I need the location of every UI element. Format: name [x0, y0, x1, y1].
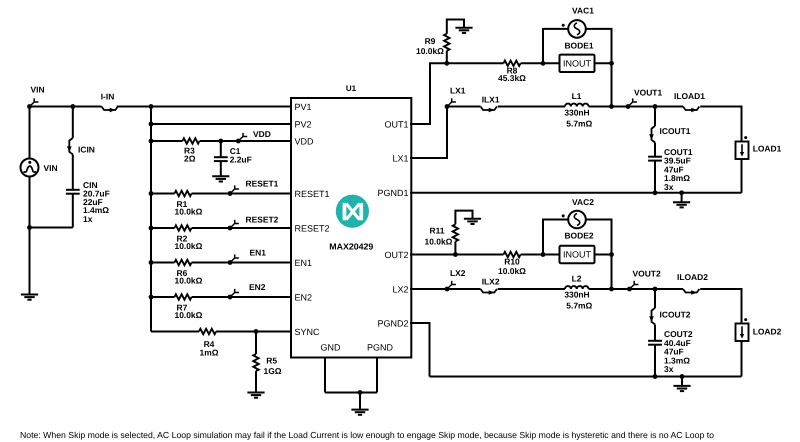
resistor R3	[183, 138, 200, 163]
capacitor C1	[214, 146, 252, 165]
node R9 tap	[444, 61, 449, 66]
node COUT2 rail junction	[653, 374, 658, 379]
svg-text:PV2: PV2	[295, 119, 312, 129]
node GND join junction	[358, 390, 363, 395]
wire R6 to EN1 pin	[192, 262, 292, 264]
ground below VIN	[21, 295, 38, 300]
current probe ICOUT2	[649, 308, 691, 324]
node CIN tap on input wire	[70, 104, 75, 109]
probe EN1	[228, 247, 267, 265]
wire VAC1 tap to BODE1	[543, 62, 560, 64]
probe VDD	[236, 129, 271, 143]
wire R5 to ground	[255, 371, 257, 392]
node R11 tap	[453, 252, 458, 257]
svg-text:R11: R11	[429, 225, 444, 235]
wire ICIN to CIN	[72, 155, 74, 190]
svg-text:1GΩ: 1GΩ	[264, 366, 282, 376]
probe VOUT2	[627, 268, 661, 291]
node COUT1 rail junction	[653, 190, 658, 195]
svg-text:SYNC: SYNC	[295, 327, 321, 337]
probe LX2	[445, 268, 466, 292]
Maxim logo	[336, 195, 369, 228]
wire RESET1 row left segment	[151, 193, 175, 195]
svg-text:RESET1: RESET1	[246, 178, 279, 188]
svg-text:3x: 3x	[664, 182, 674, 192]
wire R9 top to ground arm	[447, 20, 464, 34]
svg-text:10.0kΩ: 10.0kΩ	[175, 310, 203, 320]
wire VAC1 left branch	[543, 29, 568, 63]
svg-text:I-IN: I-IN	[101, 91, 115, 101]
svg-text:ILX1: ILX1	[482, 95, 500, 105]
ground below C1	[212, 176, 229, 181]
wire right junction down to VOUT1	[611, 63, 613, 106]
node bottom-left junction	[27, 225, 32, 230]
node VOUT2	[609, 287, 614, 292]
wire L1 to VOUT1 node	[589, 106, 612, 108]
wire EN1 row left segment	[151, 262, 175, 264]
wire PV2 row	[151, 123, 292, 125]
wire PGND1 rail	[410, 192, 742, 194]
probe LX1	[445, 86, 466, 109]
wire ILOAD1 to LOAD1 corner	[700, 107, 741, 142]
svg-text:ICOUT2: ICOUT2	[660, 309, 691, 319]
svg-text:ILOAD1: ILOAD1	[674, 91, 705, 101]
wire VAC1 right branch	[586, 29, 612, 63]
wire R3 to VDD pin	[200, 140, 292, 142]
svg-text:5.7mΩ: 5.7mΩ	[566, 118, 592, 128]
wire BODE1 to right junction	[595, 62, 612, 64]
svg-text:VIN: VIN	[44, 163, 58, 173]
svg-text:VOUT1: VOUT1	[634, 87, 662, 97]
voltage source VAC2	[562, 197, 595, 228]
wire PGND2 rail	[430, 376, 742, 378]
node VIN with probe marker	[27, 84, 44, 109]
inductor L1	[564, 91, 592, 128]
wire VAC2 right branch	[586, 220, 612, 255]
svg-text:LOAD1: LOAD1	[753, 144, 782, 154]
current probe I-IN	[101, 91, 118, 112]
svg-text:10.0kΩ: 10.0kΩ	[498, 266, 526, 276]
svg-text:LOAD2: LOAD2	[753, 327, 782, 337]
svg-text:EN2: EN2	[295, 292, 313, 302]
voltage source VIN	[21, 159, 58, 177]
probe VOUT1	[626, 87, 663, 109]
resistor R7	[175, 294, 203, 320]
svg-text:ILX2: ILX2	[482, 277, 500, 287]
node ICOUT2 tap	[653, 287, 658, 292]
wire R11 top to ground arm	[455, 211, 472, 225]
svg-text:VDD: VDD	[253, 129, 271, 139]
wire VIN node down to source	[29, 107, 31, 159]
wire RESET2 row left segment	[151, 227, 175, 229]
svg-text:VOUT2: VOUT2	[633, 268, 661, 278]
svg-text:2.2uF: 2.2uF	[230, 155, 252, 165]
wire bottom node to ground	[29, 228, 31, 295]
svg-text:PGND2: PGND2	[377, 318, 408, 328]
node bus-PV1	[149, 104, 154, 109]
wire OUT2 row	[410, 254, 504, 256]
svg-text:1x: 1x	[83, 214, 93, 224]
current probe ILOAD2	[677, 272, 708, 295]
wire ground tap down	[681, 377, 683, 386]
wire R8 to VAC1 tap	[521, 62, 543, 64]
current probe ILX1	[481, 95, 500, 113]
wire COUT2 to rail	[654, 345, 656, 377]
wire C1 to ground	[220, 161, 222, 176]
wire right junction down to LX2 row	[611, 255, 613, 290]
wire ICOUT2 branch top	[654, 289, 656, 308]
ground below U1	[351, 410, 368, 415]
wire R4 to SYNC pin	[216, 331, 292, 333]
wire R5 tap down	[255, 332, 257, 355]
probe BODE1 INOUT box	[560, 40, 595, 72]
wire R2 to RESET2 pin	[192, 227, 292, 229]
svg-text:ILOAD2: ILOAD2	[677, 272, 708, 282]
wire VAC2 left branch	[543, 220, 568, 255]
capacitor COUT1	[648, 147, 693, 192]
svg-text:LX2: LX2	[450, 268, 466, 278]
svg-text:5.7mΩ: 5.7mΩ	[566, 300, 592, 310]
svg-text:1mΩ: 1mΩ	[200, 347, 219, 357]
svg-text:INOUT: INOUT	[563, 250, 592, 260]
wire R11 tap up	[454, 242, 456, 255]
svg-text:10.0kΩ: 10.0kΩ	[175, 207, 203, 217]
svg-text:OUT2: OUT2	[384, 250, 408, 260]
wire PGND pin down	[376, 358, 378, 393]
node bus-VDD	[149, 139, 154, 144]
voltage source VAC1	[562, 5, 595, 37]
svg-text:Note: When Skip mode is select: Note: When Skip mode is selected, AC Loo…	[20, 430, 714, 440]
wire COUT1 to rail	[654, 161, 656, 193]
wire ICOUT1 branch top	[654, 107, 656, 127]
ground below R5	[247, 393, 264, 398]
wire GND pin down	[324, 358, 326, 393]
capacitor CIN	[66, 180, 110, 224]
resistor R2	[175, 225, 203, 251]
current probe ILOAD1	[674, 91, 705, 112]
svg-text:RESET2: RESET2	[246, 215, 279, 225]
svg-text:EN1: EN1	[295, 258, 313, 268]
current probe ILX2	[481, 277, 500, 295]
wire R9 tap to R8	[447, 62, 504, 64]
node bus-RESET1	[149, 191, 154, 196]
wire LOAD2 to PGND2 rail	[741, 341, 743, 377]
wire LOAD1 to PGND1 rail	[741, 159, 743, 193]
op-amp U1 MAX20429 IC body	[291, 84, 411, 358]
wire to ILOAD2	[655, 288, 683, 290]
wire VIN node to I-IN probe	[30, 106, 102, 108]
current probe ICIN	[67, 138, 95, 154]
ground on PGND2 rail	[673, 386, 690, 391]
wire ILX2 to L2	[498, 288, 565, 290]
wire R1 to RESET1 pin	[192, 193, 292, 195]
probe RESET1	[228, 178, 279, 196]
load source LOAD1	[736, 136, 782, 159]
svg-text:10.0kΩ: 10.0kΩ	[416, 46, 444, 56]
wire VAC2 tap to BODE2	[543, 254, 560, 256]
resistor R4	[199, 329, 219, 358]
svg-text:BODE2: BODE2	[564, 230, 593, 240]
svg-text:PGND: PGND	[367, 342, 394, 352]
node BODE1 right junction	[609, 61, 614, 66]
node R5 tap on SYNC wire	[254, 329, 259, 334]
svg-text:MAX20429: MAX20429	[329, 242, 373, 252]
resistor R5	[253, 354, 281, 376]
wire EN2 row left segment	[151, 296, 175, 298]
wire LX1 to ILX1	[447, 106, 481, 108]
wire left vertical bus	[150, 107, 152, 332]
svg-text:ICOUT1: ICOUT1	[660, 126, 691, 136]
node bus-EN1	[149, 260, 154, 265]
svg-text:LX1: LX1	[392, 153, 408, 163]
wire VDD row left segment	[151, 140, 183, 142]
wire junction to ground	[359, 393, 361, 410]
svg-text:ICIN: ICIN	[78, 144, 95, 154]
ground above R11	[464, 219, 481, 224]
wire ICOUT1 to COUT1	[654, 143, 656, 157]
svg-text:GND: GND	[321, 342, 342, 352]
resistor R9	[416, 34, 449, 56]
resistor R8	[498, 61, 526, 84]
wire R10 to VAC2 tap	[521, 254, 543, 256]
svg-text:U1: U1	[346, 84, 357, 93]
svg-text:3x: 3x	[664, 364, 674, 374]
svg-text:330nH: 330nH	[564, 290, 589, 300]
node ICOUT1 tap	[653, 104, 658, 109]
wire VOUT2 segment	[612, 288, 656, 290]
node PGND2 ground tap	[680, 374, 685, 379]
wire ILOAD2 to LOAD2 corner	[700, 289, 741, 324]
ground above R9	[455, 28, 472, 33]
resistor R11	[425, 224, 459, 246]
wire source to bottom node	[29, 176, 31, 227]
node VOUT1	[609, 104, 614, 109]
load source LOAD2	[736, 318, 782, 341]
wire SYNC row left segment	[151, 331, 199, 333]
node C1 tap	[218, 139, 223, 144]
node bus-PV2	[149, 122, 154, 127]
svg-text:PGND1: PGND1	[377, 188, 408, 198]
svg-text:L1: L1	[572, 91, 582, 101]
node bus-RESET2	[149, 226, 154, 231]
wire bottom node to CIN	[30, 227, 73, 229]
wire R7 to EN2 pin	[192, 296, 292, 298]
svg-text:45.3kΩ: 45.3kΩ	[498, 73, 526, 83]
svg-text:VIN: VIN	[31, 84, 45, 94]
probe BODE2 INOUT box	[560, 230, 595, 263]
wire L2 to VOUT2 node	[589, 288, 612, 290]
svg-text:EN1: EN1	[250, 247, 267, 257]
svg-text:R10: R10	[504, 257, 520, 267]
svg-text:RESET2: RESET2	[295, 223, 330, 233]
svg-text:L2: L2	[572, 274, 582, 284]
svg-text:R9: R9	[425, 36, 436, 46]
wire ground tap down	[681, 193, 683, 202]
node VAC2 tap	[541, 252, 546, 257]
probe RESET2	[228, 215, 279, 231]
resistor R6	[175, 260, 203, 286]
node BODE2 right junction	[609, 252, 614, 257]
svg-text:VAC2: VAC2	[572, 197, 594, 207]
svg-text:LX1: LX1	[450, 86, 466, 96]
ground on PGND1 rail	[673, 202, 690, 207]
svg-text:LX2: LX2	[392, 284, 408, 294]
wire OUT1 riser	[410, 63, 447, 124]
node PGND1 ground tap	[679, 190, 684, 195]
capacitor COUT2	[648, 329, 693, 374]
wire BODE2 to right junction	[595, 254, 612, 256]
wire PGND2 riser from chip	[410, 323, 430, 377]
wire VOUT1 segment	[612, 106, 656, 108]
svg-text:VDD: VDD	[295, 136, 315, 146]
svg-text:VAC1: VAC1	[572, 5, 594, 15]
svg-text:BODE1: BODE1	[564, 40, 593, 50]
wire I-IN to PV1 pin	[117, 106, 292, 108]
wire ICOUT2 to COUT2	[654, 325, 656, 341]
wire R9 tap up	[446, 51, 448, 64]
node VAC1 tap	[541, 61, 546, 66]
probe EN2	[228, 282, 266, 300]
wire CIN to bottom node	[72, 194, 74, 228]
svg-text:330nH: 330nH	[564, 107, 589, 117]
svg-text:PV1: PV1	[295, 102, 312, 112]
inductor L2	[564, 274, 592, 311]
svg-text:10.0kΩ: 10.0kΩ	[425, 237, 453, 247]
wire GND-PGND join	[325, 392, 377, 394]
svg-text:2Ω: 2Ω	[184, 153, 196, 163]
wire ILX1 to L1	[498, 106, 565, 108]
wire LX1 riser	[410, 107, 447, 159]
svg-text:10.0kΩ: 10.0kΩ	[175, 276, 203, 286]
wire down to ICIN probe	[72, 107, 74, 139]
resistor R1	[175, 191, 203, 217]
wire LX2 row from chip	[410, 288, 481, 290]
wire to ILOAD1	[655, 106, 683, 108]
current probe ICOUT1	[649, 126, 691, 143]
svg-text:INOUT: INOUT	[563, 59, 592, 69]
svg-text:RESET1: RESET1	[295, 189, 330, 199]
svg-text:10.0kΩ: 10.0kΩ	[175, 241, 203, 251]
svg-text:EN2: EN2	[249, 282, 266, 292]
resistor R10	[498, 252, 526, 276]
svg-text:OUT1: OUT1	[384, 119, 408, 129]
svg-text:R5: R5	[266, 355, 277, 365]
wire C1 tap down	[220, 141, 222, 157]
node bus-EN2	[149, 295, 154, 300]
